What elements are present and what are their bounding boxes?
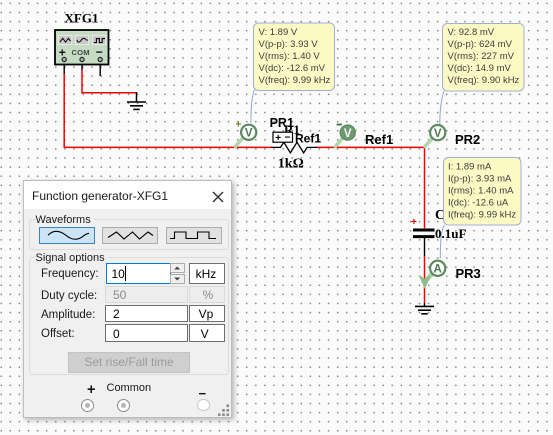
- svg-text:V: V: [245, 128, 253, 140]
- ground GND2: [415, 303, 434, 314]
- svg-text:A: A: [434, 264, 442, 276]
- pin stub - unconnected: [99, 65, 101, 77]
- group signal options: [29, 252, 229, 376]
- svg-text:−: −: [285, 132, 291, 143]
- svg-text:V(freq): 9.90 kHz: V(freq): 9.90 kHz: [448, 75, 520, 86]
- svg-text:V(p-p): 3.93 V: V(p-p): 3.93 V: [259, 39, 319, 50]
- svg-text:V: 1.89 V: V: 1.89 V: [259, 27, 298, 38]
- pin stub +: [63, 65, 65, 75]
- svg-text:V(dc): -12.6 mV: V(dc): -12.6 mV: [259, 63, 326, 74]
- svg-text:V(rms): 1.40 V: V(rms): 1.40 V: [259, 51, 321, 62]
- pin stub COM: [81, 65, 83, 71]
- probe PR2 (voltage magnifier): [425, 125, 445, 146]
- group waveforms: [29, 214, 229, 250]
- terminals row: [87, 382, 95, 398]
- svg-text:I(rms): 1.40 mA: I(rms): 1.40 mA: [448, 186, 514, 197]
- measurement callout PR3 (current readings): [444, 158, 522, 226]
- leader line callout PR2: [440, 91, 444, 124]
- svg-text:I: 1.89 mA: I: 1.89 mA: [448, 162, 492, 173]
- function generator XFG1: [55, 11, 109, 77]
- svg-text:V: V: [344, 128, 352, 140]
- svg-text:I(p-p): 3.93 mA: I(p-p): 3.93 mA: [448, 174, 512, 185]
- wire main horizontal node to resistor: [64, 146, 272, 148]
- svg-text:1kΩ: 1kΩ: [278, 157, 304, 172]
- waveform button triangle: [102, 227, 158, 244]
- svg-text:I(dc): -12.6 uA: I(dc): -12.6 uA: [448, 198, 509, 209]
- button set rise/fall time (disabled): [68, 352, 190, 373]
- wire XFG1 + terminal down to main node: [63, 74, 65, 147]
- svg-text:PR2: PR2: [455, 132, 480, 147]
- row frequency: [41, 268, 99, 280]
- svg-text:COM: COM: [72, 48, 90, 57]
- row duty cycle: [41, 290, 97, 302]
- svg-text:Ref1: Ref1: [365, 132, 393, 147]
- leader line callout PR3: [440, 225, 444, 259]
- probe PR3 (current magnifier arrow): [420, 261, 446, 288]
- dialog: Function generator-XFG1: [23, 180, 232, 418]
- ground GND1: [127, 92, 146, 109]
- svg-text:−: −: [96, 45, 103, 59]
- waveform button sine (selected): [39, 227, 95, 244]
- svg-text:+: +: [236, 120, 242, 131]
- row amplitude: [41, 309, 95, 321]
- radio common: [117, 399, 130, 412]
- leader line callout PR1: [251, 90, 255, 124]
- svg-text:0.1uF: 0.1uF: [435, 226, 466, 241]
- measurement callout PR1 (voltage readings): [254, 23, 335, 91]
- wire COM terminal to ground: [82, 70, 137, 93]
- svg-text:V(p-p): 624 mV: V(p-p): 624 mV: [448, 39, 513, 50]
- svg-text:XFG1: XFG1: [65, 11, 99, 26]
- resize grip: [218, 404, 231, 416]
- wire capacitor to ground: [424, 256, 426, 303]
- probe Ref1 (voltage, filled): [335, 125, 355, 147]
- radio -: [197, 399, 210, 412]
- resistor R1: [271, 142, 318, 153]
- probe differential polarity box of PR1: [273, 132, 293, 144]
- svg-text:PR1: PR1: [270, 116, 294, 130]
- svg-text:I(freq): 9.99 kHz: I(freq): 9.99 kHz: [448, 210, 516, 221]
- probe PR1 (voltage magnifier +): [235, 120, 256, 147]
- svg-text:V(rms): 227 mV: V(rms): 227 mV: [448, 51, 515, 62]
- svg-text:V: V: [434, 128, 442, 140]
- svg-text:V(dc): 14.9 mV: V(dc): 14.9 mV: [448, 63, 512, 74]
- svg-text:V(freq): 9.99 kHz: V(freq): 9.99 kHz: [259, 75, 331, 86]
- radio +: [81, 399, 94, 412]
- capacitor C1: [411, 217, 435, 256]
- svg-text:+: +: [411, 217, 417, 228]
- dialog title bar: [24, 181, 231, 209]
- measurement callout PR2 (voltage readings): [443, 24, 525, 92]
- wire node down to capacitor: [424, 147, 426, 229]
- wire resistor to capacitor node: [318, 146, 425, 148]
- terminal circles: [62, 57, 66, 61]
- svg-text:+: +: [275, 133, 281, 144]
- waveform button square: [166, 227, 222, 244]
- svg-text:Ref1: Ref1: [295, 132, 321, 146]
- svg-text:V: 92.8 mV: V: 92.8 mV: [448, 27, 495, 38]
- row offset: [41, 328, 75, 340]
- svg-text:PR3: PR3: [456, 266, 481, 281]
